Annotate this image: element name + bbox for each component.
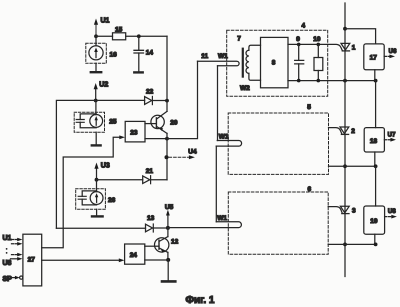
svg-text:4: 4 [302,22,306,29]
svg-text:25: 25 [109,118,117,125]
svg-text:23: 23 [130,129,138,136]
svg-text:1: 1 [352,45,356,52]
thyristor 3 [328,206,356,214]
svg-text:7: 7 [237,36,241,43]
ground under current source 16 [91,71,101,73]
winding W1 of block 6 [168,146,242,228]
svg-text:Фиг. 1: Фиг. 1 [186,295,215,306]
input SP with inverting circle [3,276,23,283]
wire control unit 27 to box 23 with arrow [42,135,125,247]
node transistor 12 emitter [166,258,170,262]
svg-text:U2: U2 [99,81,108,88]
node diode 22 / bus [165,99,169,103]
svg-text:U1: U1 [101,18,110,25]
svg-text:27: 27 [28,257,36,264]
input arrow 1 [12,238,23,242]
node U3 [94,162,109,181]
node bus top branch [343,27,347,31]
output U6 [384,49,397,58]
winding W1 of block 4 (primary hairpin) [198,53,240,66]
svg-text:11: 11 [201,53,208,60]
driver box 23 [125,121,145,141]
secondary winding W2 [240,45,261,92]
output U7 [384,133,396,142]
load box 17 [364,44,384,70]
winding W1 of block 5 [216,66,241,146]
wire U5 node through transistor 12 collector/emitter [167,228,169,260]
current source 26 [76,180,116,216]
input arrow 3 [12,253,23,257]
svg-text:17: 17 [370,55,378,62]
diode 13 [146,215,168,232]
node U4 [165,148,197,159]
wire box 18 bottom stem [374,152,376,166]
svg-text:U1: U1 [3,235,12,242]
svg-text:26: 26 [108,197,116,204]
svg-text:9: 9 [296,36,300,43]
ground under current source 26 [92,215,103,217]
svg-text:12: 12 [171,239,179,246]
input arrow 4 (U8) [3,257,23,267]
transistor 12 [155,237,179,253]
main anode bus [344,3,346,277]
wire resistor 15 to bus corner [126,34,167,38]
control unit 27 [23,234,42,286]
node U1 [94,18,110,39]
diode 21 [143,168,167,184]
wire load bus box18 to box19 [375,166,377,206]
ground under current source 25 [92,144,101,146]
pulse block 4 dashed box [227,22,328,96]
svg-text:U3: U3 [101,162,110,169]
wire to diode 13 [56,227,145,229]
node bus channel 3 [343,243,347,247]
resistor 10 [313,36,323,80]
wire box 24 bottom to emitter node [145,259,168,261]
wire U1 node to resistor 15 [96,35,113,37]
load box 18 [364,128,384,152]
svg-text:2: 2 [351,128,355,135]
svg-text:U6: U6 [389,49,398,55]
svg-text:W1: W1 [217,215,227,222]
current source 25 [74,100,117,144]
wire U3 node to diode 21 [97,179,143,181]
wire emitter node to ground [167,260,169,280]
wire box 24 to transistor 12 base [145,245,159,247]
svg-text:24: 24 [130,252,138,259]
node U5 [165,204,174,230]
svg-text:SP: SP [3,276,13,283]
driver box 24 [125,244,145,264]
wire emitter node to winding 11 riser [167,53,209,139]
wire box 8 top output to thyristor 1 gate [288,43,342,51]
wire box 23 bottom to emitter node [145,138,167,140]
svg-text:14: 14 [146,50,154,57]
wire top branch to box 17 [345,29,376,44]
node U2 [94,81,109,102]
wire box 8 bottom output rail [288,79,378,83]
wire load bus box17 to box18 [375,81,377,128]
wire U2 row and left drop to diode 13 row [56,100,95,228]
svg-text:W2: W2 [240,85,250,92]
channel feed bus (vertical x=167) [166,36,168,179]
thyristor 1 [341,43,356,51]
wire box 19 bottom stem [374,234,376,244]
wire box 17 bottom stem [374,70,376,81]
svg-text:W1: W1 [219,134,229,141]
capacitor 9 [295,36,304,80]
diode 22 [145,88,167,104]
svg-text:U8: U8 [388,209,397,215]
input arrow 2 [12,242,23,246]
pulse block 6 dashed box [228,186,328,254]
output U8 [385,209,397,218]
ellipsis dots [6,248,8,254]
wire control unit 27 to box 24 with arrow [42,258,125,262]
svg-text:19: 19 [370,218,378,225]
svg-text:5: 5 [307,104,311,111]
wire box 23 to transistor 20 base [145,123,156,125]
wire channel 2 return rail [329,165,376,167]
transformer core 7 [237,36,243,77]
svg-text:U5: U5 [165,204,174,211]
pulse block 5 dashed box [228,104,328,174]
thyristor 2 [329,127,356,135]
svg-text:16: 16 [110,51,118,58]
svg-text:20: 20 [170,119,178,126]
svg-text:22: 22 [146,88,154,95]
rectifier box 8 [261,37,289,87]
ground under transistor 12 [162,280,175,283]
svg-text:8: 8 [272,60,276,67]
svg-text:10: 10 [313,36,321,43]
svg-text:13: 13 [147,215,155,222]
svg-text:U4: U4 [188,148,197,155]
transistor 20 [151,111,178,133]
svg-text:21: 21 [146,168,154,175]
svg-text:3: 3 [352,207,356,214]
svg-text:U8: U8 [3,260,12,267]
wire channel 3 return rail [328,243,375,245]
wire U2 node to diode 22 [96,99,145,101]
load box 19 [364,206,385,234]
capacitor 14 [134,36,153,71]
svg-text:6: 6 [308,186,312,193]
current source 16 [86,36,117,71]
resistor 15 [113,26,126,40]
ground under capacitor 14 [134,71,142,73]
svg-text:U7: U7 [388,133,397,139]
node bus channel 2 [343,164,347,168]
svg-text:18: 18 [370,138,378,145]
svg-text:W1: W1 [218,53,228,60]
node transistor 20 emitter [165,137,169,141]
